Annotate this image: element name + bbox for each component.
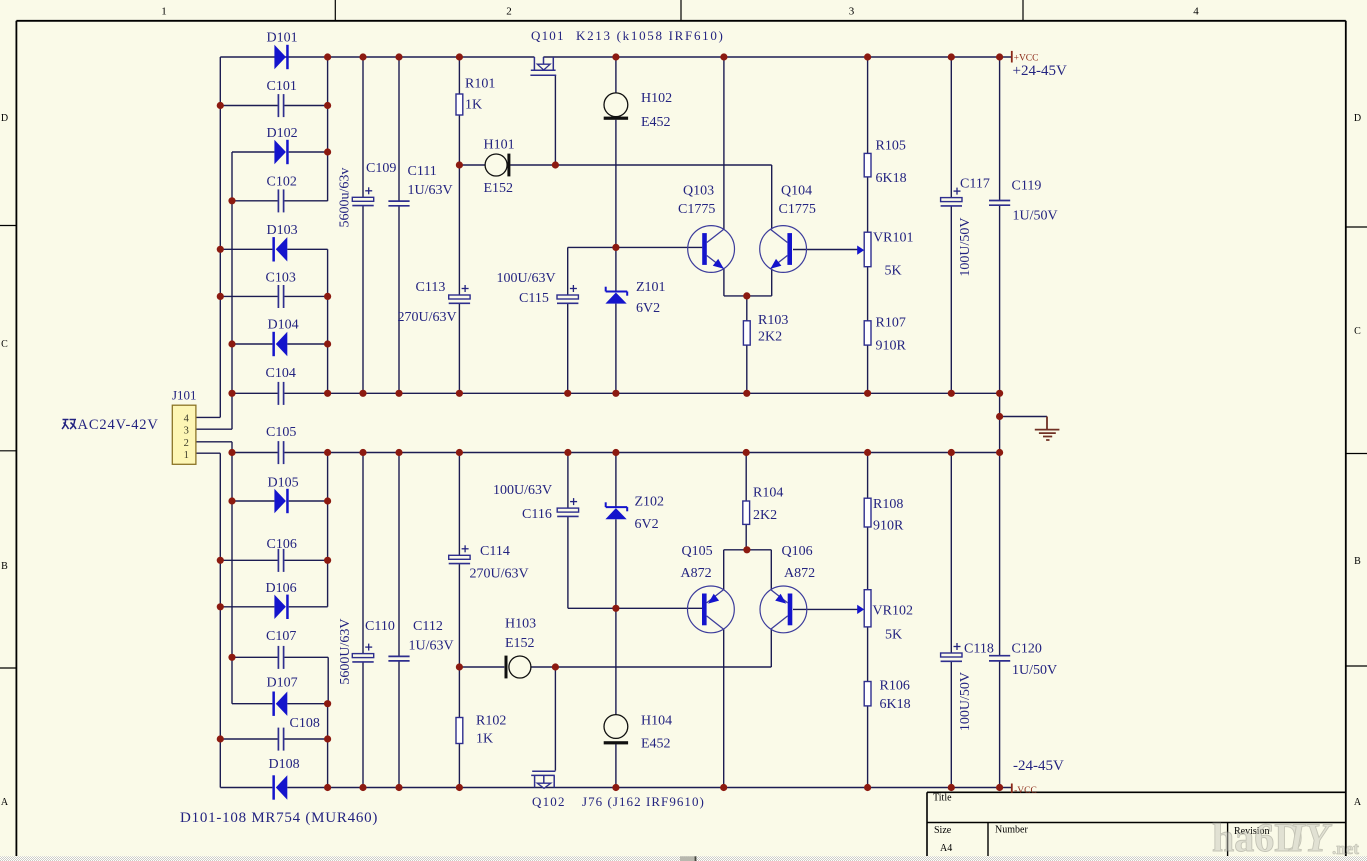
svg-text:+24-45V: +24-45V [1013, 63, 1067, 79]
watermark ha6DIY.net [1212, 815, 1359, 860]
resistor R103 [743, 313, 788, 345]
junction dots right column [324, 102, 331, 743]
svg-text:D108: D108 [269, 757, 300, 772]
svg-text:C: C [1354, 326, 1361, 337]
wire H103 node [459, 666, 771, 668]
svg-text:6V2: 6V2 [636, 301, 660, 316]
ruler column numbers [161, 6, 1199, 18]
svg-text:C101: C101 [267, 79, 297, 94]
junction dots mid nodes [456, 161, 1003, 670]
capacitor C106 [267, 537, 297, 572]
svg-text:C112: C112 [413, 619, 443, 634]
svg-text:.net: .net [1332, 839, 1359, 858]
svg-text:C111: C111 [408, 164, 437, 179]
junction dots left verticals [217, 102, 236, 743]
svg-text:D106: D106 [266, 581, 297, 596]
svg-text:R101: R101 [465, 77, 495, 92]
svg-text:910R: 910R [873, 519, 904, 534]
wire Q105 collector [723, 629, 725, 787]
wire C106 row [220, 559, 327, 561]
wire ground rail A [231, 392, 1000, 394]
svg-text:6K18: 6K18 [876, 171, 907, 186]
wire Q103 base node [568, 247, 703, 393]
label +24-45V [1013, 63, 1067, 79]
svg-text:Q102: Q102 [532, 794, 566, 809]
capacitor C120 [989, 642, 1057, 679]
svg-text:H102: H102 [641, 91, 672, 106]
wire C102 row [232, 200, 328, 202]
diode D102 [267, 126, 298, 164]
svg-text:100U/50V: 100U/50V [958, 217, 973, 276]
junction dots rail B [228, 449, 1003, 456]
svg-text:R108: R108 [873, 497, 903, 512]
capacitor C105 [266, 425, 296, 464]
diode D104 [268, 318, 299, 357]
transistor Q102 mosfet [531, 771, 566, 809]
label C117 value [958, 217, 973, 276]
resistor R102 [456, 714, 506, 747]
wire R105 VR101 R107 column [867, 57, 869, 393]
svg-text:4: 4 [1193, 6, 1199, 18]
wire C101 row [220, 105, 327, 107]
capacitor C113 [398, 280, 471, 325]
capacitor C114 [449, 544, 529, 582]
wire C120 column [999, 453, 1001, 788]
wire emitter junction top [724, 269, 772, 296]
label diode types [180, 810, 378, 826]
svg-text:E152: E152 [505, 636, 535, 651]
wire C114 R102 column [458, 453, 460, 788]
wire Q105 base node [568, 607, 702, 609]
svg-text:R102: R102 [476, 714, 506, 729]
svg-text:D101: D101 [267, 31, 298, 46]
svg-text:A872: A872 [681, 566, 712, 581]
svg-text:A4: A4 [940, 843, 952, 854]
svg-text:R107: R107 [876, 316, 906, 331]
svg-text:D104: D104 [268, 318, 299, 333]
bottom scrollbar strip [0, 856, 1367, 861]
wire D105 row [232, 500, 328, 502]
svg-text:2: 2 [506, 6, 512, 18]
svg-text:C108: C108 [290, 716, 320, 731]
wire C112 column [398, 453, 400, 788]
wire Q103 collector [723, 57, 725, 229]
wire C108 row [220, 738, 327, 740]
svg-text:1: 1 [184, 450, 189, 461]
wire D104 row [232, 343, 328, 345]
capacitor C103 [266, 271, 296, 309]
title block [927, 792, 1346, 856]
svg-text:R106: R106 [880, 679, 910, 694]
capacitor C110 [352, 619, 395, 662]
ruler row letters right [1354, 113, 1362, 808]
svg-text:B: B [1354, 556, 1361, 567]
capacitor C118 [941, 642, 994, 662]
svg-text:1K: 1K [476, 732, 493, 747]
svg-text:B: B [1, 561, 8, 572]
lamp H102 [604, 91, 672, 130]
svg-text:270U/63V: 270U/63V [470, 567, 529, 582]
svg-text:910R: 910R [876, 339, 907, 354]
wire rail A to rail B link [999, 393, 1001, 452]
ruler row ticks left [0, 226, 16, 669]
svg-text:5K: 5K [885, 264, 902, 279]
svg-text:2: 2 [184, 438, 189, 449]
svg-text:C: C [1, 339, 8, 350]
svg-text:J101: J101 [172, 388, 197, 403]
lamp H104 [604, 714, 672, 752]
label Q102 type [582, 794, 705, 809]
capacitor C119 [989, 179, 1058, 224]
label Q101 type [576, 28, 725, 43]
svg-text:5600u/63v: 5600u/63v [338, 168, 353, 228]
diode D103 [267, 223, 298, 262]
svg-text:Size: Size [934, 825, 952, 836]
svg-text:AC24V-42V: AC24V-42V [78, 417, 159, 433]
svg-text:D107: D107 [267, 676, 298, 691]
svg-text:C107: C107 [266, 629, 296, 644]
wire Q106 base to VR102 [793, 608, 858, 610]
lamp H101 [484, 138, 515, 197]
wire C109 column [362, 57, 364, 393]
capacitor C109 [352, 161, 396, 206]
power port +VCC [1012, 51, 1039, 64]
svg-text:C120: C120 [1012, 642, 1042, 657]
svg-text:4: 4 [184, 413, 190, 424]
svg-text:Z102: Z102 [635, 495, 665, 510]
resistor R107 [864, 316, 906, 354]
svg-text:1U/63V: 1U/63V [409, 639, 454, 654]
svg-text:C104: C104 [266, 366, 296, 381]
capacitor C115 [497, 271, 579, 306]
svg-text:A: A [1354, 797, 1362, 808]
svg-text:D103: D103 [267, 223, 298, 238]
resistor R101 [456, 77, 495, 116]
svg-text:270U/63V: 270U/63V [398, 310, 457, 325]
wire D103 row [220, 248, 327, 250]
svg-text:2K2: 2K2 [758, 330, 782, 345]
svg-text:A872: A872 [784, 566, 815, 581]
svg-text:Title: Title [933, 793, 952, 804]
svg-text:100U/63V: 100U/63V [493, 483, 552, 498]
svg-text:C1775: C1775 [779, 202, 816, 217]
transistor Q104 [760, 184, 816, 273]
svg-text:Q105: Q105 [682, 544, 713, 559]
svg-text:IY: IY [1288, 815, 1333, 860]
svg-text:Number: Number [995, 825, 1028, 836]
svg-text:VR101: VR101 [873, 231, 913, 246]
lamp H103 [505, 617, 537, 679]
svg-text:Q104: Q104 [781, 184, 812, 199]
zener Z101 [605, 280, 665, 316]
label C109 value [338, 168, 353, 228]
capacitor C101 [267, 79, 297, 117]
potentiometer VR102 [857, 590, 913, 643]
wire D102 row [232, 151, 328, 153]
wire H102 Z101 column [615, 57, 617, 393]
svg-text:D102: D102 [267, 126, 298, 141]
junction dots bottom rail [324, 784, 1003, 791]
wire vertical x=232 lower [231, 453, 233, 704]
svg-text:H103: H103 [505, 617, 536, 632]
svg-text:5K: 5K [885, 628, 902, 643]
svg-text:H101: H101 [484, 138, 515, 153]
transistor Q105 [681, 544, 735, 633]
svg-text:1: 1 [161, 6, 167, 18]
wire pin1 elbow down x=220 [196, 453, 220, 787]
ruler column tick 3|4 [1022, 0, 1024, 20]
svg-text:+VCC: +VCC [1014, 54, 1039, 64]
wire pin2 to rail B [196, 442, 232, 453]
svg-text:C1775: C1775 [678, 202, 715, 217]
wire C103 row [220, 295, 327, 297]
svg-text:A: A [1, 797, 9, 808]
svg-text:R105: R105 [876, 139, 906, 154]
transistor Q106 [760, 544, 815, 633]
wire D106 row [220, 606, 327, 608]
wire C111 column [398, 57, 400, 393]
capacitor C112 [388, 619, 453, 661]
diode D101 [267, 31, 298, 70]
svg-text:Q101: Q101 [531, 28, 565, 43]
svg-text:D: D [1, 113, 8, 124]
svg-text:J76 (J162 IRF9610): J76 (J162 IRF9610) [582, 794, 705, 809]
svg-text:VR102: VR102 [873, 604, 913, 619]
capacitor C116 [493, 483, 579, 522]
zener Z102 [605, 495, 664, 533]
wire AC input vertical x=220 (pin4) [196, 57, 220, 417]
svg-text:C106: C106 [267, 537, 297, 552]
wire R101 C113 column [458, 57, 460, 393]
label C118 value [958, 672, 973, 731]
svg-text:1U/63V: 1U/63V [408, 183, 453, 198]
svg-text:E452: E452 [641, 737, 671, 752]
svg-text:C103: C103 [266, 271, 296, 286]
wire C117 column [950, 57, 952, 393]
svg-text:C119: C119 [1012, 179, 1042, 194]
wire rail B [232, 452, 1000, 454]
svg-text:D105: D105 [268, 476, 299, 491]
wire emitter junction bottom [724, 550, 772, 590]
resistor R104 [743, 486, 784, 525]
resistor R106 [864, 679, 910, 713]
capacitor C108 [278, 716, 319, 751]
svg-text:Z101: Z101 [636, 280, 666, 295]
wire AC input vertical x=232 (pin3) [196, 152, 232, 429]
wire Q101 source lead [554, 75, 556, 165]
diode D108 [269, 757, 300, 800]
wire Q102 gate lead [532, 667, 555, 771]
power port -VCC [1012, 784, 1037, 796]
svg-text:-24-45V: -24-45V [1013, 758, 1064, 774]
capacitor C107 [266, 629, 296, 669]
svg-text:D: D [1354, 113, 1361, 124]
wire R108 VR102 R106 column [867, 453, 869, 788]
ground symbol [1035, 417, 1060, 441]
svg-text:2K2: 2K2 [753, 508, 777, 523]
ruler column tick 1|2 [334, 0, 336, 20]
svg-text:C109: C109 [366, 161, 396, 176]
wire +VCC top rail [220, 56, 1011, 58]
label AC input [62, 417, 159, 433]
svg-text:R103: R103 [758, 313, 788, 328]
capacitor C111 [388, 164, 452, 206]
J101 pin numbers [184, 413, 190, 461]
wire R103 column [746, 296, 748, 393]
svg-text:C117: C117 [960, 177, 990, 192]
svg-text:C110: C110 [365, 619, 395, 634]
svg-text:E152: E152 [484, 181, 514, 196]
svg-text:1U/50V: 1U/50V [1012, 663, 1057, 678]
svg-text:K213 (k1058 IRF610): K213 (k1058 IRF610) [576, 28, 725, 43]
wire Z102 H104 column [615, 453, 617, 788]
wire -VCC bottom rail [220, 787, 1011, 789]
potentiometer VR101 [857, 231, 913, 279]
diode D107 [267, 676, 298, 716]
label -24-45V [1013, 758, 1064, 774]
label C110 value [338, 618, 353, 684]
wire rectifier right column [327, 57, 330, 788]
capacitor C117 [941, 177, 990, 206]
svg-text:3: 3 [849, 6, 855, 18]
svg-text:R104: R104 [753, 486, 783, 501]
junction dots rail A [228, 390, 1003, 397]
wire C110 column [362, 453, 364, 788]
junction dots top rail [324, 53, 1003, 60]
wire R104 column [745, 453, 747, 550]
wire D107 row [232, 703, 328, 705]
svg-text:5600U/63V: 5600U/63V [338, 618, 353, 684]
diode D106 [266, 581, 297, 619]
resistor R108 [864, 497, 904, 534]
capacitor C104 [266, 366, 296, 405]
wire Q106 collector [770, 629, 772, 667]
svg-text:100U/63V: 100U/63V [497, 271, 556, 286]
wire H101 node [459, 165, 771, 229]
svg-text:1K: 1K [465, 98, 482, 113]
svg-text:C116: C116 [522, 507, 552, 522]
wire C116 column [567, 453, 569, 609]
svg-text:Q103: Q103 [683, 184, 714, 199]
ruler row ticks right [1346, 227, 1367, 666]
svg-text:6K18: 6K18 [880, 697, 911, 712]
resistor R105 [864, 139, 906, 187]
svg-text:C115: C115 [519, 291, 549, 306]
svg-text:C105: C105 [266, 425, 296, 440]
svg-text:E452: E452 [641, 115, 671, 130]
svg-text:C113: C113 [416, 280, 446, 295]
svg-text:C102: C102 [267, 175, 297, 190]
connector J101 [172, 388, 197, 465]
svg-text:Q106: Q106 [782, 544, 813, 559]
svg-text:H104: H104 [641, 714, 672, 729]
capacitor C102 [267, 175, 297, 213]
diode D105 [268, 476, 299, 514]
wire ground branch [1000, 416, 1047, 418]
ruler row letters left [1, 113, 9, 808]
svg-text:6V2: 6V2 [635, 517, 659, 532]
wire C119 column [999, 57, 1001, 393]
svg-text:C114: C114 [480, 544, 510, 559]
svg-text:1U/50V: 1U/50V [1013, 209, 1058, 224]
wire Q104 base to VR101 [793, 249, 858, 251]
wire C118 column [950, 453, 952, 788]
transistor Q103 [678, 184, 734, 273]
svg-text:D101-108 MR754 (MUR460): D101-108 MR754 (MUR460) [180, 810, 378, 826]
transistor Q101 mosfet [530, 28, 564, 75]
wire C107 row [232, 656, 328, 658]
ruler column tick 2|3 [680, 0, 682, 20]
svg-text:100U/50V: 100U/50V [958, 672, 973, 731]
svg-text:-VCC: -VCC [1014, 786, 1037, 796]
svg-text:3: 3 [184, 426, 189, 437]
svg-text:C118: C118 [964, 642, 994, 657]
